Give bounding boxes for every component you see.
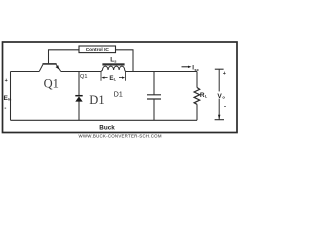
wire capacitor branch: [153, 72, 155, 121]
label Vo: [217, 91, 226, 98]
svg-text:L: L: [114, 77, 117, 82]
diode D1: [75, 96, 82, 102]
wire Q1 emitter to inductor: [61, 71, 101, 73]
svg-text:Q1: Q1: [44, 76, 59, 90]
svg-text:in: in: [8, 98, 12, 102]
wire input top left: [11, 71, 40, 73]
svg-text:+: +: [5, 78, 8, 84]
wire inductor to load node: [126, 71, 198, 73]
outer frame: [3, 42, 238, 133]
svg-text:Buck: Buck: [99, 125, 115, 132]
svg-text:sc: sc: [194, 67, 199, 72]
svg-text:-: -: [224, 105, 226, 111]
svg-text:-: -: [4, 106, 6, 112]
inductor Ls core: [102, 63, 124, 65]
capacitor C plates: [147, 95, 161, 99]
svg-text:D1: D1: [114, 91, 123, 98]
wire diode branch: [78, 72, 80, 121]
bottom rail: [11, 119, 198, 121]
wire resistor branch: [196, 72, 198, 121]
control IC box: [79, 46, 116, 53]
svg-text:L: L: [205, 94, 208, 99]
inductor Ls windings: [101, 66, 126, 71]
svg-text:Q1: Q1: [80, 74, 87, 80]
EL dimension arrows: [104, 77, 123, 79]
wire control IC right down to main node: [116, 50, 134, 72]
resistor RL zigzag: [194, 88, 200, 105]
svg-text:Control IC: Control IC: [86, 47, 110, 53]
transistor Q1: [39, 64, 61, 72]
left rail E_in: [10, 72, 12, 121]
svg-text:s: s: [114, 58, 117, 63]
svg-text:+: +: [223, 71, 226, 77]
current arrow Io: [182, 66, 189, 68]
EL dimension ticks: [101, 72, 126, 81]
Vo annotation line: [215, 69, 224, 120]
svg-text:WWW.BUCK-CONVERTER-SCH.COM: WWW.BUCK-CONVERTER-SCH.COM: [79, 133, 162, 138]
wire control IC left to Q1 base: [49, 50, 80, 64]
svg-text:D1: D1: [89, 93, 104, 107]
